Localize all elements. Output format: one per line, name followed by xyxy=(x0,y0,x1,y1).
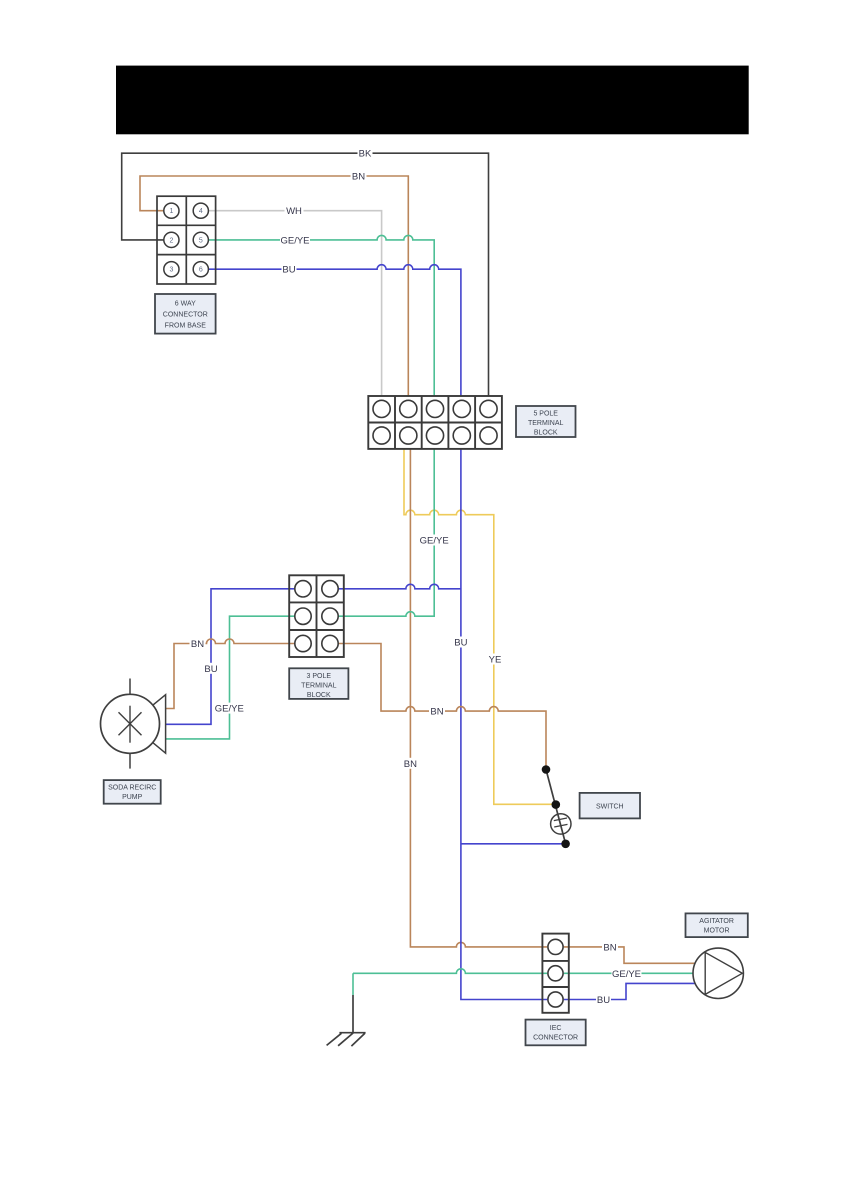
svg-text:BU: BU xyxy=(597,995,610,1006)
IEC connector circles xyxy=(548,939,563,1007)
ground stem xyxy=(352,995,354,1033)
svg-text:WH: WH xyxy=(286,206,302,217)
wire label BU xyxy=(282,264,297,275)
title block (redacted) xyxy=(116,66,749,135)
wire BN (terminal 2 bottom to IEC top) xyxy=(410,449,547,947)
svg-text:FROM BASE: FROM BASE xyxy=(165,323,207,330)
label box: SODA RECIRC PUMP xyxy=(104,780,161,804)
label box: 6 WAY CONNECTOR FROM BASE xyxy=(155,294,216,334)
wire BN (IEC top to motor) xyxy=(564,947,695,963)
label box: 5 POLE TERMINAL BLOCK xyxy=(516,406,576,437)
wire label BN vertical xyxy=(402,758,419,769)
wire BN (3-pole left bottom to pump) xyxy=(166,639,295,709)
switch S1 blade xyxy=(546,770,566,844)
wire label WH xyxy=(285,205,304,216)
svg-text:YE: YE xyxy=(489,655,502,666)
switch S1 lamp circle xyxy=(551,814,571,834)
svg-text:BU: BU xyxy=(204,664,217,675)
svg-text:BLOCK: BLOCK xyxy=(534,430,558,437)
svg-text:GE/YE: GE/YE xyxy=(280,235,309,246)
wire BU vertical (terminal 4 bottom to IEC bottom) xyxy=(461,449,547,1000)
svg-text:AGITATOR: AGITATOR xyxy=(699,918,734,925)
svg-text:BN: BN xyxy=(404,759,417,770)
wire BN (pin1 to terminal 2) xyxy=(140,176,408,396)
svg-text:BK: BK xyxy=(359,149,372,160)
wire GE/YE (IEC middle to motor) xyxy=(564,972,693,974)
svg-text:BN: BN xyxy=(430,707,443,718)
wire label GE/YE IEC xyxy=(612,968,642,979)
connector J1 pin numbers xyxy=(169,208,202,274)
svg-text:CONNECTOR: CONNECTOR xyxy=(533,1035,578,1042)
svg-text:MOTOR: MOTOR xyxy=(704,927,730,934)
wire GE/YE ground drop xyxy=(352,973,354,995)
wire label GE/YE mid xyxy=(419,535,449,546)
switch S1 lamp lines xyxy=(554,818,568,827)
label box: 3 POLE TERMINAL BLOCK xyxy=(289,668,348,699)
pump M1 pipe stub top xyxy=(129,679,131,695)
wire BU (3-pole left top to pump) xyxy=(166,589,295,725)
wire WH (pin4 to terminal 1) xyxy=(208,211,381,396)
wire label BN IEC xyxy=(602,941,618,952)
wire GE/YE (pin5 to terminal 3) xyxy=(208,235,434,396)
svg-text:BN: BN xyxy=(352,172,365,183)
wire label GE/YE left xyxy=(214,703,244,714)
wire label BU IEC xyxy=(596,994,611,1005)
svg-text:3 POLE: 3 POLE xyxy=(307,673,332,680)
wire BU (pin6 to terminal 4) xyxy=(208,265,461,396)
connector J1 6-way body xyxy=(157,196,216,284)
label box: IEC CONNECTOR xyxy=(526,1020,586,1046)
svg-text:GE/YE: GE/YE xyxy=(612,969,641,980)
svg-text:2: 2 xyxy=(169,237,173,244)
svg-text:BLOCK: BLOCK xyxy=(307,692,331,699)
wire BK (pin2 to terminal 5) xyxy=(122,153,489,396)
svg-text:1: 1 xyxy=(169,208,173,215)
svg-text:5 POLE: 5 POLE xyxy=(533,411,558,418)
svg-text:PUMP: PUMP xyxy=(122,794,143,801)
wire YE (terminal 2 bottom to switch middle) xyxy=(404,449,556,804)
IEC connector body xyxy=(542,934,568,1013)
svg-text:BN: BN xyxy=(603,942,616,953)
svg-text:BU: BU xyxy=(454,638,467,649)
wire GE/YE (terminal 3 bottom to 3-pole right middle) xyxy=(339,449,435,616)
svg-text:CONNECTOR: CONNECTOR xyxy=(163,312,208,319)
wire label YE xyxy=(488,654,502,665)
ground symbol xyxy=(327,1033,366,1046)
svg-text:GE/YE: GE/YE xyxy=(420,536,449,547)
connector J1 pin circles xyxy=(164,203,209,277)
wire label BN switch xyxy=(429,706,445,717)
terminal block TB1 5-pole body xyxy=(368,396,502,449)
svg-text:6 WAY: 6 WAY xyxy=(175,301,196,308)
svg-text:SODA RECIRC: SODA RECIRC xyxy=(108,785,156,792)
wire BU (IEC bottom to motor) xyxy=(564,983,696,999)
wire label BN xyxy=(351,171,367,182)
label box: SWITCH xyxy=(580,793,640,819)
pump M1 circle xyxy=(101,694,160,753)
wire label BK xyxy=(358,148,373,159)
wire BN (3-pole right bottom to switch top) xyxy=(339,644,546,770)
wire GE/YE (3-pole left middle to pump) xyxy=(166,616,295,739)
svg-text:3: 3 xyxy=(169,267,173,274)
terminal block TB2 3-pole body xyxy=(289,575,344,657)
pump M1 asterisk xyxy=(119,706,142,743)
svg-text:GE/YE: GE/YE xyxy=(215,704,244,715)
wire BU (tee to 3-pole right top) xyxy=(339,584,461,589)
svg-text:5: 5 xyxy=(199,237,203,244)
wire BU (tee to switch bottom) xyxy=(461,843,566,845)
label box: AGITATOR MOTOR xyxy=(686,913,748,937)
wire label BU right xyxy=(453,637,468,648)
svg-text:IEC: IEC xyxy=(550,1025,562,1032)
svg-text:BU: BU xyxy=(282,265,295,276)
svg-text:TERMINAL: TERMINAL xyxy=(528,420,564,427)
terminal block TB2 circles xyxy=(295,581,338,652)
svg-text:SWITCH: SWITCH xyxy=(596,804,624,811)
wire label GE/YE xyxy=(280,234,310,245)
motor M2 circle xyxy=(693,948,743,998)
svg-text:4: 4 xyxy=(199,208,203,215)
pump M1 pipe stub bottom xyxy=(129,753,131,768)
terminal block TB1 circles xyxy=(373,400,497,444)
pump M1 cone xyxy=(130,695,166,754)
wire label BU left xyxy=(204,663,219,674)
wire GE/YE (ground to IEC middle) xyxy=(353,969,547,973)
switch S1 terminal dots xyxy=(542,765,551,774)
motor M2 triangle xyxy=(705,952,742,994)
svg-text:BN: BN xyxy=(191,639,204,650)
svg-text:TERMINAL: TERMINAL xyxy=(301,682,337,689)
svg-text:6: 6 xyxy=(199,267,203,274)
wire label BN left xyxy=(190,638,206,649)
